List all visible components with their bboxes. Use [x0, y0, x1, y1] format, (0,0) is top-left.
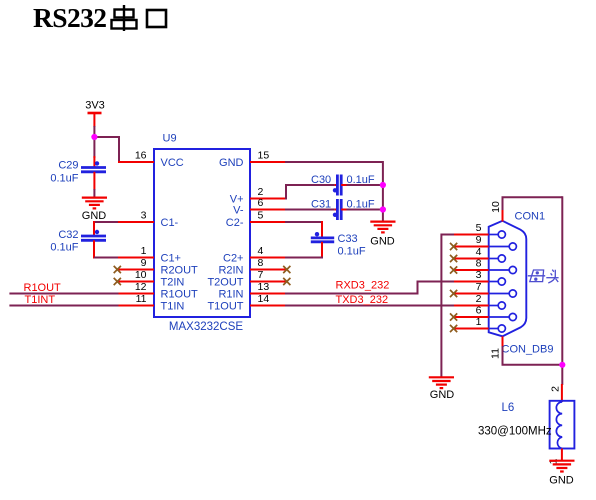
inductor L6 — [550, 401, 575, 449]
svg-text:0.1uF: 0.1uF — [338, 246, 366, 258]
wire C1+ net bottom — [93, 240, 95, 258]
svg-text:3: 3 — [476, 269, 482, 281]
power 3V3 bar — [88, 112, 102, 115]
title glyph 串 — [112, 5, 137, 31]
no-connect X pin 9 — [114, 266, 121, 273]
pin 11 T1IN U9 left — [118, 293, 184, 313]
svg-text:T1INT: T1INT — [25, 294, 56, 306]
svg-text:GND: GND — [549, 474, 574, 486]
pin 4 CON1 — [454, 246, 505, 262]
svg-text:V-: V- — [233, 205, 244, 217]
no-connect X pin 10 — [114, 278, 121, 285]
svg-text:0.1uF: 0.1uF — [50, 242, 78, 254]
svg-text:T1IN: T1IN — [161, 301, 185, 313]
pin 9 CON1 — [454, 234, 516, 250]
op-amp U9 MAX3232CSE body — [154, 149, 250, 317]
wire right rail vertical — [561, 196, 563, 385]
capacitor C33 — [311, 232, 334, 242]
svg-text:T2IN: T2IN — [161, 277, 185, 289]
ground right rail — [370, 221, 395, 223]
svg-text:2: 2 — [550, 386, 562, 392]
svg-text:R1OUT: R1OUT — [24, 282, 62, 294]
svg-text:12: 12 — [135, 281, 147, 293]
svg-text:GND: GND — [82, 210, 107, 222]
wire GND net pin15 — [285, 161, 383, 163]
no-connect X CON1 pin 1 — [450, 325, 457, 332]
svg-text:C32: C32 — [58, 229, 78, 241]
svg-text:GND: GND — [370, 235, 395, 247]
svg-text:4: 4 — [476, 246, 482, 258]
svg-text:3: 3 — [141, 210, 147, 222]
wire 3V3 to C29 — [93, 126, 95, 158]
wire junction to VCC horizontal — [94, 136, 119, 138]
ground DB9 — [429, 376, 454, 378]
wire pin10 top horizontal — [502, 196, 563, 198]
svg-text:C2-: C2- — [226, 217, 244, 229]
pin 2 L6 stub — [561, 384, 563, 402]
wire pin11 horizontal — [502, 364, 563, 366]
node junction C30 rail — [380, 182, 386, 188]
wire C31 to rail — [347, 209, 383, 211]
svg-text:C30: C30 — [311, 174, 331, 186]
wire GND rail vertical — [382, 161, 384, 222]
wire C2- net — [285, 221, 322, 223]
svg-text:VCC: VCC — [161, 157, 184, 169]
svg-text:R2OUT: R2OUT — [161, 265, 199, 277]
wire pin11 down — [502, 346, 504, 365]
svg-text:11: 11 — [489, 348, 501, 359]
wire C33 bottom lead — [321, 242, 323, 259]
pin 13 R1IN U9 right — [218, 281, 285, 301]
pin 5 C2- U9 right — [226, 210, 286, 230]
wire 3V3 stem — [93, 113, 95, 127]
wire TXD3_232 from pin14 — [285, 305, 454, 307]
wire C1- net top — [94, 221, 118, 223]
connector CON1 DB9 outline — [489, 221, 527, 336]
no-connect X CON1 pin 7 — [450, 290, 457, 297]
pin 6 V- U9 right — [233, 197, 286, 217]
pin 2 CON1 — [454, 293, 505, 309]
svg-text:C1-: C1- — [161, 217, 179, 229]
pin 6 CON1 — [454, 304, 516, 320]
pin 1 L6 stub — [561, 449, 563, 461]
svg-text:RXD3_232: RXD3_232 — [336, 280, 390, 292]
pin 12 R1OUT U9 left — [118, 281, 198, 301]
no-connect X pin 7 — [283, 278, 290, 285]
svg-text:7: 7 — [258, 269, 264, 281]
capacitor C30 — [333, 175, 348, 196]
pin 10 CON1 stub — [502, 209, 504, 222]
wire RXD3_232 to DB9 pin3 — [417, 281, 455, 283]
svg-text:8: 8 — [258, 257, 264, 269]
wire VCC vertical — [118, 136, 120, 162]
svg-text:1: 1 — [141, 245, 147, 257]
no-connect X CON1 pin 8 — [450, 266, 457, 273]
svg-text:10: 10 — [135, 269, 147, 281]
no-connect X pin 8 — [283, 266, 290, 273]
no-connect X CON1 pin 6 — [450, 313, 457, 320]
svg-text:L6: L6 — [502, 402, 515, 414]
pin 1 C1+ U9 left — [118, 245, 181, 265]
wire to C29 top — [93, 156, 95, 168]
pin 9 R2OUT U9 left — [118, 257, 198, 277]
svg-text:5: 5 — [258, 210, 264, 222]
svg-text:4: 4 — [258, 245, 264, 257]
capacitor C31 — [333, 199, 348, 220]
pin 11 CON1 stub — [502, 336, 504, 347]
svg-text:CON1: CON1 — [515, 211, 546, 223]
svg-text:C33: C33 — [338, 233, 358, 245]
svg-text:14: 14 — [258, 293, 270, 305]
svg-text:C2+: C2+ — [223, 253, 244, 265]
no-connect X CON1 pin 4 — [450, 255, 457, 262]
pin 7 T2OUT U9 right — [207, 269, 285, 289]
svg-text:2: 2 — [476, 293, 482, 305]
svg-text:8: 8 — [476, 257, 482, 269]
svg-text:C1+: C1+ — [161, 253, 182, 265]
svg-text:R1IN: R1IN — [218, 289, 243, 301]
wire C2+ net — [285, 257, 323, 259]
pin 14 T1OUT U9 right — [207, 293, 285, 313]
capacitor C32 — [81, 230, 106, 241]
svg-text:330@100MHz: 330@100MHz — [478, 426, 552, 438]
wire gnd rail vertical DB9 — [440, 234, 442, 378]
svg-text:3V3: 3V3 — [85, 100, 105, 112]
svg-text:GND: GND — [219, 157, 244, 169]
svg-text:16: 16 — [135, 150, 147, 162]
no-connect X CON1 pin 9 — [450, 243, 457, 250]
wire C33 top lead — [321, 221, 323, 238]
pin 10 T2IN U9 left — [118, 269, 184, 289]
pin 15 GND U9 right — [219, 150, 286, 170]
svg-text:C31: C31 — [311, 199, 331, 211]
wire C29 bottom — [93, 172, 95, 190]
svg-text:15: 15 — [258, 150, 270, 162]
wire RXD3_232 jog up — [417, 282, 419, 295]
node junction C31 rail — [380, 206, 386, 212]
svg-text:R1OUT: R1OUT — [161, 289, 199, 301]
label 头 glyph — [546, 270, 558, 283]
svg-text:TXD3_232: TXD3_232 — [336, 294, 389, 306]
wire RXD3_232 from pin13 — [285, 293, 418, 295]
pin 7 CON1 — [454, 281, 516, 297]
svg-text:C29: C29 — [58, 159, 78, 171]
pin 2 V+ U9 right — [230, 186, 286, 206]
wire DB9 pin5 to gnd rail — [441, 234, 454, 236]
svg-text:6: 6 — [258, 197, 264, 209]
svg-text:9: 9 — [141, 257, 147, 269]
pin 3 CON1 — [454, 269, 505, 285]
svg-text:11: 11 — [136, 293, 147, 305]
capacitor C29 — [81, 161, 106, 172]
pin 1 CON1 — [454, 316, 505, 332]
svg-text:0.1uF: 0.1uF — [50, 172, 78, 184]
wire net T1INT — [9, 305, 118, 307]
node junction 3V3 — [91, 134, 97, 140]
svg-text:GND: GND — [430, 389, 455, 401]
svg-text:MAX3232CSE: MAX3232CSE — [169, 321, 243, 333]
svg-text:R2IN: R2IN — [218, 265, 243, 277]
wire C30 to rail — [347, 184, 383, 186]
wire pin10 up — [502, 197, 504, 210]
svg-text:7: 7 — [476, 281, 482, 293]
pin 8 R2IN U9 right — [218, 257, 285, 277]
wire net R1OUT — [9, 293, 118, 295]
svg-text:10: 10 — [490, 201, 502, 213]
pin 4 C2+ U9 right — [223, 245, 286, 265]
svg-text:6: 6 — [476, 304, 482, 316]
ground L6 — [549, 460, 574, 462]
svg-text:RS232: RS232 — [33, 2, 106, 33]
svg-text:CON_DB9: CON_DB9 — [502, 344, 554, 356]
svg-text:1: 1 — [476, 316, 482, 328]
svg-text:13: 13 — [258, 281, 270, 293]
pin 8 CON1 — [454, 257, 516, 273]
svg-text:5: 5 — [476, 222, 482, 234]
wire V+ jog — [285, 185, 287, 200]
pin 16 VCC U9 left — [118, 150, 184, 170]
svg-text:9: 9 — [476, 234, 482, 246]
svg-text:U9: U9 — [163, 133, 177, 145]
node junction L6 — [559, 362, 565, 368]
title glyph 口 — [147, 10, 166, 27]
pin 3 C1- U9 left — [118, 210, 179, 230]
label 母 glyph — [528, 270, 545, 282]
wire V- to C31 — [285, 209, 335, 211]
ground below C29 — [82, 197, 107, 199]
svg-text:T1OUT: T1OUT — [207, 301, 243, 313]
svg-text:T2OUT: T2OUT — [207, 277, 243, 289]
pin 5 CON1 — [454, 222, 505, 238]
